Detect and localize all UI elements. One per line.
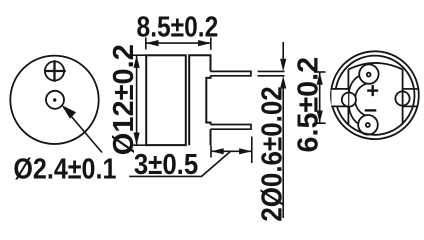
side view: main body rectangle (146, 55, 186, 145)
bottom view: inner circle (335, 56, 414, 135)
bottom view: right slot lines (403, 89, 419, 107)
side view: bottom pin (211, 125, 252, 130)
top view: center hole circle (46, 91, 64, 109)
top view: center dot (53, 98, 56, 101)
dimension 6.5±0.2: dimension line with arrows (317, 72, 323, 123)
dimension 3±0.5: dimension line with arrows (211, 148, 252, 154)
bottom view: right chord line (402, 69, 404, 124)
svg-text:6.5±0.2: 6.5±0.2 (292, 57, 324, 153)
dimension Ø12±0.2: extension ticks (132, 55, 146, 145)
side view: base section outline with pin notches (189, 55, 210, 145)
bottom view: left slot lines (331, 89, 348, 107)
bottom view: left side hole circle (342, 93, 356, 107)
svg-text:3±0.5: 3±0.5 (134, 147, 198, 180)
bottom view: bottom pin circle (358, 115, 378, 135)
bottom view: minus polarity mark (365, 109, 377, 111)
bottom view: top pin circle (359, 64, 378, 83)
dimension 2Ø0.6±0.02: pin edge extension lines (258, 71, 285, 75)
bottom view: bottom pin center dot (366, 123, 370, 127)
bottom view: left slot cutout (331, 90, 348, 106)
side view: top pin (211, 71, 251, 75)
dimension 8.5±0.2: extension lines (146, 37, 211, 49)
dimension 8.5±0.2: dimension line with arrows (146, 40, 211, 46)
top view: sound hole circle with cross (44, 60, 66, 82)
dimension 6.5±0.2: extension ticks (314, 72, 326, 123)
svg-text:Ø2.4±0.1: Ø2.4±0.1 (13, 152, 116, 185)
dimension 3±0.5: extension lines (211, 137, 252, 164)
dimension Ø12±0.2: dimension line with arrows (134, 55, 140, 145)
leader arrow for dimension Ø2.4 (62, 105, 103, 153)
bottom view: plus polarity mark (367, 85, 378, 96)
bottom view: left chord line (347, 69, 349, 124)
dimension 2Ø0.6±0.02: dimension line with outside arrows (280, 42, 286, 218)
bottom view: terminal strap curves (349, 76, 367, 124)
svg-text:Ø12±0.2: Ø12±0.2 (108, 44, 140, 155)
bottom view: right side hole circle (395, 91, 409, 105)
bottom view: outer case circle (331, 51, 419, 139)
svg-text:8.5±0.2: 8.5±0.2 (137, 11, 219, 43)
svg-text:2Ø0.6±0.02: 2Ø0.6±0.02 (255, 86, 288, 221)
bottom view: top inner arc (348, 63, 402, 69)
bottom view: top pin center dot (367, 73, 371, 77)
dimension 3±0.5: leader shelf and diagonal (129, 151, 230, 176)
top view: buzzer case outline circle (10, 56, 98, 144)
